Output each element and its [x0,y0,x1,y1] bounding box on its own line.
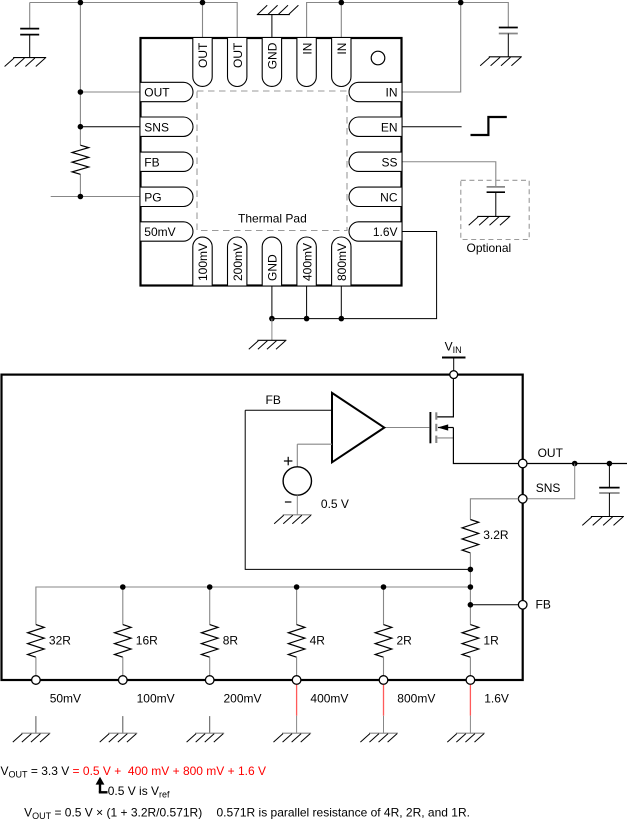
svg-text:16R: 16R [136,634,158,648]
svg-text:FB: FB [266,393,281,407]
svg-text:IN: IN [300,43,314,55]
svg-text:50mV: 50mV [144,225,175,239]
svg-text:GND: GND [266,42,280,69]
svg-text:SNS: SNS [536,481,561,495]
svg-text:800mV: 800mV [335,243,349,281]
svg-text:OUT: OUT [196,42,210,68]
svg-text:400mV: 400mV [300,243,314,281]
svg-text:50mV: 50mV [50,692,81,706]
svg-text:3.2R: 3.2R [483,528,509,542]
svg-text:VOUT = 0.5 V × (1 + 3.2R/0.571: VOUT = 0.5 V × (1 + 3.2R/0.571R)0.571R i… [24,806,470,822]
svg-text:PG: PG [144,190,161,204]
svg-text:4R: 4R [310,634,326,648]
svg-text:400mV: 400mV [310,692,348,706]
svg-text:800mV: 800mV [397,692,435,706]
svg-text:1.6V: 1.6V [373,225,398,239]
svg-text:OUT: OUT [144,86,170,100]
svg-text:SNS: SNS [144,120,169,134]
svg-text:200mV: 200mV [231,243,245,281]
svg-text:VOUT = 3.3 V = 0.5 V + 400 mV: VOUT = 3.3 V = 0.5 V + 400 mV + 800 mV +… [1,764,267,780]
svg-text:EN: EN [381,120,398,134]
svg-text:GND: GND [266,254,280,281]
svg-text:32R: 32R [49,634,71,648]
svg-text:FB: FB [536,598,551,612]
svg-text:Thermal Pad: Thermal Pad [238,211,307,225]
svg-text:NC: NC [380,190,398,204]
svg-text:SS: SS [381,155,397,169]
svg-text:8R: 8R [223,634,239,648]
svg-text:IN: IN [386,86,398,100]
svg-text:1R: 1R [483,634,499,648]
svg-text:1.6V: 1.6V [484,692,509,706]
svg-text:200mV: 200mV [224,692,262,706]
svg-text:Optional: Optional [467,241,512,255]
svg-text:0.5 V: 0.5 V [321,497,349,511]
svg-text:OUT: OUT [231,42,245,68]
svg-text:OUT: OUT [538,446,564,460]
svg-text:100mV: 100mV [137,692,175,706]
svg-text:100mV: 100mV [196,243,210,281]
svg-text:FB: FB [144,155,159,169]
svg-text:2R: 2R [397,634,413,648]
svg-text:IN: IN [335,43,349,55]
